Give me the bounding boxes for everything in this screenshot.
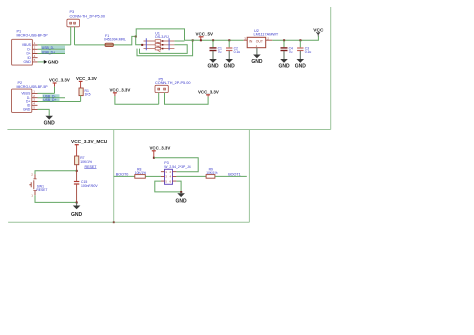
wire header row3 to ground loop [155,181,181,192]
svg-text:7u: 7u [289,50,293,54]
junction reset node [76,170,78,172]
svg-text:0451004.MRL: 0451004.MRL [104,38,126,42]
capacitor C3 0.1u [297,39,311,59]
ground at U2 [251,55,263,65]
ground at C3 [295,59,307,69]
svg-text:7u: 7u [218,50,222,54]
resistor R9 10K/1% [176,168,246,179]
svg-text:GND: GND [23,60,31,64]
ground at C1 [207,59,219,69]
ground at boot header [176,192,188,205]
wire main rail to U2 [185,39,244,41]
net label USB_D- (highlighted) [38,46,65,50]
junction boot gnd [180,191,182,193]
ground at reset [71,202,83,218]
svg-text:VCC_3.3V: VCC_3.3V [150,145,171,150]
wire bottom loop B [137,40,193,56]
wire reset node to switch [35,171,77,174]
capacitor C2 0.1u [226,39,240,59]
wire F1 to switch riser [114,36,137,45]
wire P3 pin1 to VBUS [70,27,72,45]
wire P5 pin2 to VCC_3.3V right [165,93,209,105]
ground at C4 [278,59,290,69]
wire bottom loop A [140,45,188,54]
svg-text:GND: GND [224,63,236,69]
svg-text:GND: GND [71,212,83,218]
wire U2 out rail [272,36,318,40]
wire vcc to header pin2 [154,158,198,172]
svg-text:GND: GND [23,108,31,112]
power flag VCC_5V [196,31,214,41]
power flag VCC [313,27,324,36]
svg-text:BOOT1: BOOT1 [228,173,241,177]
ground flag GND at P1 [38,60,59,66]
wire VCC_3.3V to P5 pin1 [115,96,159,104]
wire P3 to F1 [75,44,105,46]
header P3 W_2.54_2*3P_J4 [161,161,191,184]
wire loop over switch U1 [136,29,184,40]
svg-text:DS-3-RJ: DS-3-RJ [155,35,169,39]
capacitor C1 7u [210,39,223,59]
resistor R8 10K/1% [135,168,161,179]
junction rail at loop B [192,39,194,41]
power flag VCC_3.3V right of P5 [198,89,219,96]
power flag VCC_3.3V_MCU [71,139,108,156]
svg-text:GND: GND [251,59,263,65]
junction row2 left [141,44,143,46]
junction reset bottom [76,202,78,204]
svg-text:GND: GND [176,199,188,205]
power flag VCC_3.3V left of P5 [110,87,131,96]
connector P3 CONN-TH_2P-P5.00 [67,10,105,27]
svg-text:100nF/50V: 100nF/50V [81,184,98,188]
section border top (power section) [7,7,330,130]
junction boot vcc [153,157,155,159]
resistor R7 10K/1% [75,156,92,171]
net label USB_D- at P2 (highlighted) [38,94,66,98]
svg-text:VCC: VCC [313,27,324,33]
net label USB_D+ at P2 (highlighted) [38,98,81,102]
svg-text:RESET: RESET [85,165,98,169]
svg-text:MICRO-USB-BF-5P: MICRO-USB-BF-5P [17,34,49,38]
wire P5 pin1 down [158,93,160,105]
wire VBUS P1 to P3 [38,44,71,46]
svg-text:VCC_3.3V: VCC_3.3V [198,89,219,94]
svg-text:RESET: RESET [36,188,47,192]
switch U1 DS-3-RJ [143,32,174,52]
svg-text:VCC_3.3V: VCC_3.3V [76,76,97,81]
switch SW1 RESET [29,172,47,197]
svg-text:CONN-TH_2P-P5.00: CONN-TH_2P-P5.00 [70,14,105,18]
connector P5 CONN-TH_2P-P5.00 [155,77,190,92]
svg-text:GND: GND [207,63,219,69]
svg-text:USB_D+: USB_D+ [43,98,56,102]
svg-text:GND: GND [48,60,59,66]
svg-text:IN: IN [249,39,253,43]
fuse F1 0451004.MRL [104,34,126,46]
connector P1 MICRO-USB-BF-5P [12,30,49,66]
capacitor C15 100nF/50V [74,171,98,203]
capacitor C4 7u [281,39,294,59]
svg-text:BOOT0: BOOT0 [116,172,129,176]
svg-text:0.1u: 0.1u [305,50,312,54]
svg-text:1K5: 1K5 [85,93,91,97]
regulator U2 LM1117AMWT [244,29,279,55]
svg-text:10K/1%: 10K/1% [80,160,92,164]
connector P2 MICRO-USB-BF-5P [12,81,49,112]
wire switch to bottom rail [35,195,77,202]
svg-text:OUT: OUT [256,39,263,43]
svg-text:MICRO-USB-BF-5P: MICRO-USB-BF-5P [17,85,49,89]
wire P3 pin2 to fuse [74,27,76,45]
svg-text:USB_D+: USB_D+ [42,50,55,54]
svg-text:VCC_5V: VCC_5V [196,31,214,36]
junction at section corner [113,221,115,223]
power flag VCC_3.3V at R1 [76,76,97,88]
svg-text:LM1117AMWT: LM1117AMWT [254,32,279,36]
svg-text:CONN-TH_2P-P5.00: CONN-TH_2P-P5.00 [155,81,190,85]
svg-text:GND: GND [44,120,56,126]
power flag VCC_3.3V at P2 VBUS [38,78,70,94]
svg-text:USB_D-: USB_D- [42,46,54,50]
section border bottom-left (reset section) [8,130,114,223]
svg-text:W_2.54_2*3P_J4: W_2.54_2*3P_J4 [164,165,191,169]
net label USB_D+ (highlighted) [38,50,65,54]
wire switch input drop to row2 [136,36,144,44]
power flag VCC_3.3V boot [150,145,171,157]
svg-text:VCC_3.3V: VCC_3.3V [110,87,131,92]
svg-text:VCC_3.3V: VCC_3.3V [49,78,70,83]
svg-text:0.1u: 0.1u [234,50,241,54]
resistor R1 1K5 [79,88,91,102]
ground at C2 [224,59,236,69]
wire P2 GND and ground [38,109,56,126]
svg-text:GND: GND [278,63,290,69]
wire boot0 [114,175,135,177]
section border bottom-right (boot section) [114,130,250,223]
svg-text:GND: GND [295,63,307,69]
junction at switch input [135,36,137,38]
wire row1 right to loop [174,40,184,42]
